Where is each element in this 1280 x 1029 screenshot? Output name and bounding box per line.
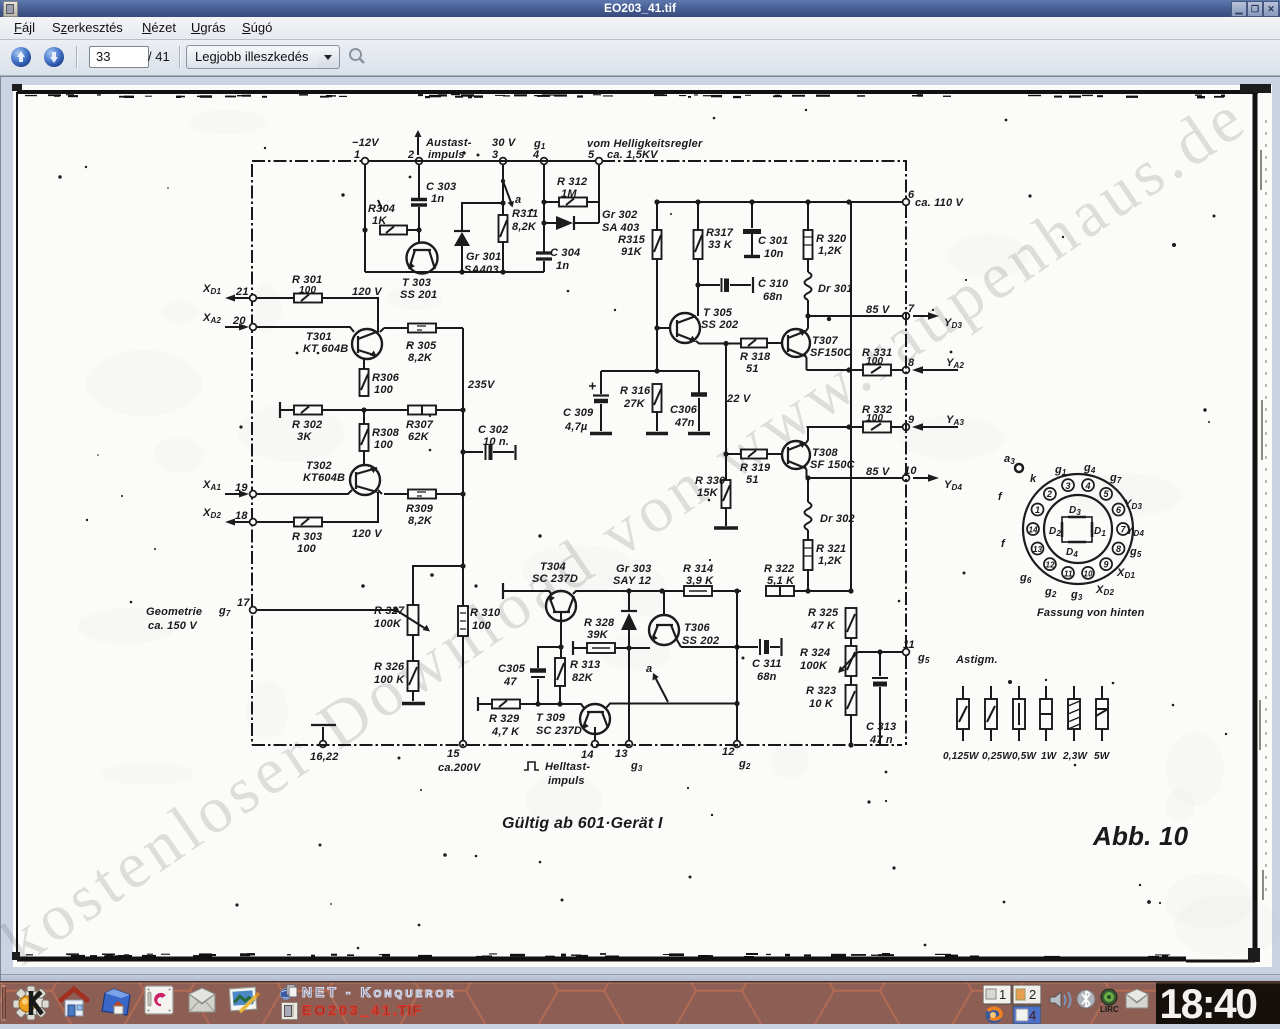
node 2: Austast-impuls input terminal — [407, 130, 472, 164]
transistor T302 KT604B — [257, 460, 382, 495]
capacitor C310 68n — [698, 277, 789, 303]
tube socket pin 1 — [1032, 504, 1044, 516]
resistor R303 100 — [257, 492, 383, 555]
tube socket pin 9 — [1100, 558, 1112, 570]
wire terminal1 drop — [362, 165, 367, 272]
resistor R318 51 — [740, 339, 782, 376]
wire T303 emitter bus — [365, 269, 544, 274]
wire top supply rail — [252, 161, 906, 198]
tube socket pin 14 — [1027, 523, 1039, 535]
wire bottom chassis rail — [252, 744, 902, 746]
wire C309 top rail — [601, 368, 699, 373]
diode Gr301 SA403 — [454, 200, 506, 276]
node 3: 30V terminal — [492, 137, 517, 164]
resistor R316 27K — [620, 384, 668, 434]
node 18: X_D2 — [202, 507, 256, 526]
mail icon — [189, 988, 215, 1012]
resistor R306 100 — [360, 359, 400, 396]
resistor R329 4.7K — [478, 697, 560, 738]
node 12: g2 — [722, 741, 751, 771]
capacitor C311 68n — [681, 638, 782, 683]
legend resistor 0.5W — [1012, 686, 1038, 762]
legend resistor 0.25W — [982, 686, 1013, 762]
resistor R314 3.9K — [683, 563, 741, 596]
node 21: X_D1 — [202, 283, 256, 302]
resistor R308 100 — [360, 410, 400, 465]
diode Gr302 SA403 — [544, 209, 639, 234]
node 20: X_A2 — [202, 312, 256, 331]
node 14: Helltast-impuls — [524, 741, 598, 787]
node 19: X_A1 — [202, 479, 256, 498]
node 9: Y_A3 input — [807, 414, 965, 431]
resistor R327 100K (geometry pot) — [374, 563, 466, 635]
tube socket pin 6 — [1113, 504, 1125, 516]
tube socket pin 8 — [1113, 543, 1125, 555]
resistor R309 8.2K — [384, 490, 466, 528]
tube socket pin 3 — [1062, 479, 1074, 491]
resistor R302 3K — [280, 402, 367, 443]
K menu icon — [13, 986, 49, 1020]
wire terminal5 drop — [598, 165, 600, 223]
wire 22V emitter line — [723, 344, 751, 481]
node 1: -12V supply terminal — [352, 137, 380, 164]
legend resistor 0.125W — [943, 686, 980, 762]
node 13: g3 — [615, 741, 643, 773]
tube socket center deflection plates — [1049, 505, 1106, 559]
resistor R310 100 — [458, 606, 501, 636]
node 11: g5 astigmatism terminal — [903, 639, 998, 666]
transistor T307 SF150C — [782, 316, 852, 370]
resistor R328 39K — [573, 617, 650, 655]
resistor R320 1.2K — [804, 202, 848, 259]
resistor R312 1M — [544, 176, 599, 207]
svg-text:2: 2 — [1029, 987, 1036, 1002]
wire Geometrie input — [146, 597, 399, 632]
resistor R304 1K — [368, 200, 422, 235]
legend resistor 5W — [1094, 686, 1111, 762]
transistor T306 SS202 — [649, 591, 719, 647]
transistor T308 SF150C — [782, 427, 856, 478]
wire g2 drop — [736, 591, 738, 740]
resistor R324 100K (astigmatism pot) — [800, 646, 902, 685]
tube socket pin 13 — [1032, 543, 1044, 555]
folder icon — [102, 989, 130, 1015]
resistor R313 82K — [555, 658, 600, 707]
resistor R322 5.1K — [764, 563, 854, 596]
legend resistor 1W — [1040, 686, 1058, 762]
svg-text:1: 1 — [999, 987, 1006, 1002]
tube socket pin 11 — [1062, 567, 1074, 579]
capacitor C301 10n — [743, 202, 788, 260]
tube socket outer ring — [1023, 474, 1133, 584]
legend resistor 2.3W — [1062, 686, 1089, 762]
resistor R332 100 — [862, 404, 892, 433]
tube socket pin 2 — [1044, 488, 1056, 500]
node 5: Helligkeitsregler input terminal — [587, 138, 703, 164]
transistor T309 SC237D — [536, 701, 740, 740]
resistor R319 51 — [726, 450, 782, 487]
resistor R326 100K — [374, 635, 425, 704]
capacitor C305 47 — [498, 647, 560, 707]
wire supply drop to divider — [850, 202, 852, 591]
wire main dc line y591 — [503, 583, 684, 599]
transistor T303 SS201 — [400, 243, 438, 302]
wiper arrow a for R313 — [646, 663, 668, 702]
tube socket pin 4 — [1082, 479, 1094, 491]
node 4: g1 terminal — [532, 138, 547, 164]
capacitor C306 47n — [670, 371, 710, 434]
resistor R323 10K — [806, 685, 857, 748]
debian package icon — [145, 986, 173, 1014]
resistor R307 62K — [364, 406, 466, 444]
tube socket pin 10 — [1082, 567, 1094, 579]
tube socket electrode labels — [998, 453, 1145, 619]
node 8: Y_A2 input — [807, 357, 965, 374]
wire 110V rail — [654, 199, 902, 204]
resistor R325 47K — [808, 607, 857, 646]
resistor R317 33K — [694, 202, 734, 316]
ground 16,22 — [310, 725, 339, 763]
tube socket pin 12 — [1044, 558, 1056, 570]
resistor R321 1.2K — [804, 540, 847, 594]
image viewer icon — [229, 987, 259, 1012]
capacitor C304 1n — [536, 165, 580, 272]
resistor R305 8.2K — [384, 324, 463, 365]
tube socket pin 7 — [1117, 523, 1129, 535]
node 10: Y_D4 output — [805, 465, 962, 492]
capacitor C313 47n — [866, 652, 896, 746]
resistor R330 15K — [695, 475, 738, 528]
node 15: ca.200V — [438, 741, 482, 774]
transistor T301 KT604B — [257, 327, 384, 359]
wire right chassis column — [905, 205, 907, 745]
home icon — [61, 989, 87, 1016]
resistor R331 100 — [862, 347, 892, 376]
inductor Dr301 — [805, 259, 853, 316]
transistor T304 SC237D — [532, 561, 578, 658]
svg-text:4: 4 — [1029, 1008, 1036, 1023]
inductor Dr302 — [805, 478, 855, 540]
wire left chassis rail — [251, 164, 253, 745]
wire 235V rail — [463, 328, 496, 741]
capacitor C303 1n — [411, 165, 456, 242]
node 7: Y_D3 output — [805, 303, 962, 330]
resistor R301 100 — [257, 274, 383, 331]
svg-text:LIRC: LIRC — [1100, 1005, 1119, 1014]
diode Gr303 SAY12 — [613, 563, 651, 740]
resistor R315 91K — [618, 202, 662, 371]
resistor R311 8.2K (adjustable) — [499, 165, 539, 272]
capacitor C309 4.7u — [563, 371, 612, 434]
transistor T305 SS202 — [657, 307, 741, 346]
capacitor C302 10n — [460, 424, 515, 460]
tube socket pin 5 — [1100, 488, 1112, 500]
node 6: ca.110V terminal — [903, 189, 965, 209]
